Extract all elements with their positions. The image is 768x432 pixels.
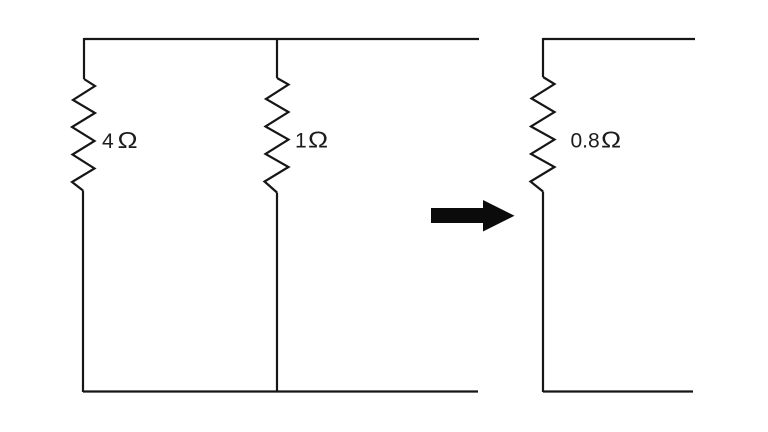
wire: middle branch vertical bottom segment — [276, 193, 278, 393]
wire: top rail of left (original) circuit — [84, 38, 479, 40]
arrow (transformation to equivalent circuit) — [431, 200, 515, 232]
wire: right circuit vertical bottom segment — [542, 192, 544, 393]
svg-text:Ω: Ω — [601, 127, 621, 153]
wire: middle branch vertical top segment — [276, 38, 278, 78]
resistor R1 4 ohm (zigzag) — [72, 79, 95, 191]
resistor R2 1 ohm (zigzag) — [265, 78, 289, 193]
wire: top rail of right (equivalent) circuit — [543, 38, 695, 40]
wire: bottom rail of right circuit — [543, 390, 693, 392]
wire: left branch vertical top segment — [83, 38, 85, 79]
svg-text:1: 1 — [295, 130, 307, 153]
svg-text:0.8: 0.8 — [571, 130, 600, 153]
wire: right circuit vertical top segment — [542, 38, 544, 77]
svg-text:Ω: Ω — [118, 128, 138, 154]
resistor R3 0.8 ohm (zigzag) — [531, 77, 555, 192]
svg-text:Ω: Ω — [308, 127, 328, 153]
wire: left branch vertical bottom segment — [82, 191, 84, 393]
svg-text:4: 4 — [102, 130, 114, 153]
wire: bottom rail of left circuit — [83, 390, 478, 392]
